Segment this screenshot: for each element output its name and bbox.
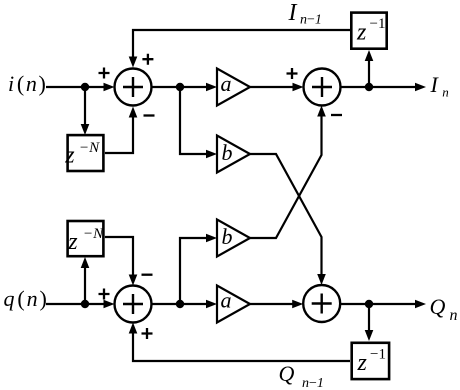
- junction dot after S1: [176, 83, 184, 91]
- gain b2 triangle: [217, 220, 250, 257]
- svg-text:n: n: [442, 85, 449, 100]
- sign + at S1 top input: [142, 54, 153, 65]
- gain a1 triangle: [217, 69, 250, 106]
- wire feedback Q_n-1 from z^-1 U4 to S3 bottom: [133, 333, 350, 361]
- junction dot on q(n): [81, 300, 89, 308]
- svg-text:z: z: [67, 229, 78, 255]
- arrowhead into S4 left: [292, 300, 303, 309]
- svg-text:Q: Q: [430, 294, 446, 319]
- summer S2: [304, 69, 341, 106]
- delay block U2 z^-N bottom: [67, 221, 104, 256]
- wire q(n) input: [46, 303, 104, 305]
- wire b2 output crossing up to summer S2: [250, 116, 322, 238]
- svg-text:z: z: [357, 350, 368, 376]
- delay block U4 z^-1 bottom: [352, 343, 389, 379]
- svg-text:−1: −1: [370, 16, 386, 32]
- arrowhead into U3 bottom: [365, 50, 374, 61]
- sign - at S3 top input: [142, 274, 153, 276]
- svg-text:I: I: [288, 0, 298, 26]
- arrowhead into S3 top: [129, 275, 138, 286]
- sign - at S1 bottom input: [144, 114, 155, 116]
- svg-text:−1: −1: [370, 347, 386, 363]
- svg-text:n−1: n−1: [302, 376, 324, 390]
- summer S1: [115, 69, 152, 106]
- summer S4: [303, 285, 340, 322]
- svg-text:I: I: [430, 72, 440, 97]
- arrowhead into b2: [206, 234, 217, 243]
- arrowhead into a2: [206, 300, 217, 309]
- arrowhead into S2 left: [293, 83, 304, 92]
- wire a2 output to summer S4: [250, 303, 294, 305]
- gain b1 triangle: [217, 136, 250, 173]
- svg-text:n−1: n−1: [300, 13, 322, 28]
- wire S3 output to gain a2: [152, 303, 208, 305]
- svg-text:n: n: [450, 307, 458, 324]
- gain a2 triangle: [217, 286, 250, 323]
- wire b1 output crossing down to summer S4: [250, 154, 322, 275]
- sign - at S2 bottom input: [331, 114, 342, 116]
- svg-text:a: a: [221, 71, 232, 96]
- wire branch to gain b2: [180, 238, 207, 304]
- wire S2 output to I_n: [341, 86, 417, 88]
- arrowhead into S3 left: [104, 300, 115, 309]
- junction dot after S4: [365, 300, 373, 308]
- wire S4 node down to z^-1 U4: [368, 304, 370, 330]
- arrowhead into S2 bottom: [317, 106, 326, 117]
- wire U1 output to summer S1 bottom: [105, 117, 133, 153]
- wire a1 output to summer S2: [250, 86, 294, 88]
- delay block U3 z^-1 top: [351, 13, 386, 49]
- arrowhead into S3 bottom: [129, 323, 138, 334]
- arrowhead into b1: [206, 150, 217, 159]
- wire i(n) branch down to z^-N U1: [84, 87, 86, 124]
- sign + at S1 left input: [99, 68, 110, 79]
- arrowhead into S1 top: [129, 57, 138, 68]
- wire i(n) input: [46, 86, 104, 88]
- sign + at S2 left input: [287, 68, 298, 79]
- wire branch to gain b1: [180, 87, 207, 154]
- arrowhead into a1: [206, 83, 217, 92]
- svg-text:q(n): q(n): [4, 286, 48, 311]
- arrowhead into U2 bottom: [81, 257, 90, 268]
- svg-text:a: a: [221, 288, 232, 313]
- arrowhead into S1 left: [104, 83, 115, 92]
- sign + at S3 bottom input: [142, 328, 153, 339]
- wire S1 output to gain a1: [152, 86, 208, 88]
- junction dot after S3: [176, 300, 184, 308]
- arrowhead output Q_n: [415, 300, 426, 309]
- arrowhead into U1 top: [81, 124, 90, 135]
- wire S4 output to Q_n: [341, 303, 417, 305]
- svg-text:−N: −N: [83, 226, 104, 242]
- wire q(n) branch up to z^-N U2: [84, 268, 86, 304]
- arrowhead into S1 bottom: [129, 107, 138, 118]
- arrowhead into U4 top: [365, 330, 374, 341]
- arrowhead into S4 top: [317, 274, 326, 285]
- junction dot after S2: [365, 83, 373, 91]
- svg-text:Q: Q: [279, 361, 295, 386]
- svg-text:i(n): i(n): [8, 71, 47, 96]
- svg-text:b: b: [222, 224, 233, 249]
- svg-text:z: z: [356, 20, 367, 46]
- summer S3: [115, 286, 152, 323]
- wire U2 output to summer S3 top: [105, 237, 133, 275]
- svg-text:z: z: [64, 143, 75, 169]
- wire S2 node up to z^-1 U3: [368, 61, 370, 87]
- arrowhead output I_n: [415, 83, 426, 92]
- sign + at S3 left input: [99, 289, 110, 300]
- delay block U1 z^-N top: [64, 135, 103, 171]
- svg-text:−N: −N: [79, 140, 100, 156]
- wire feedback I_n-1 from z^-1 U3 to S1 top: [133, 30, 350, 59]
- junction dot on i(n): [81, 83, 89, 91]
- svg-text:b: b: [222, 140, 233, 165]
